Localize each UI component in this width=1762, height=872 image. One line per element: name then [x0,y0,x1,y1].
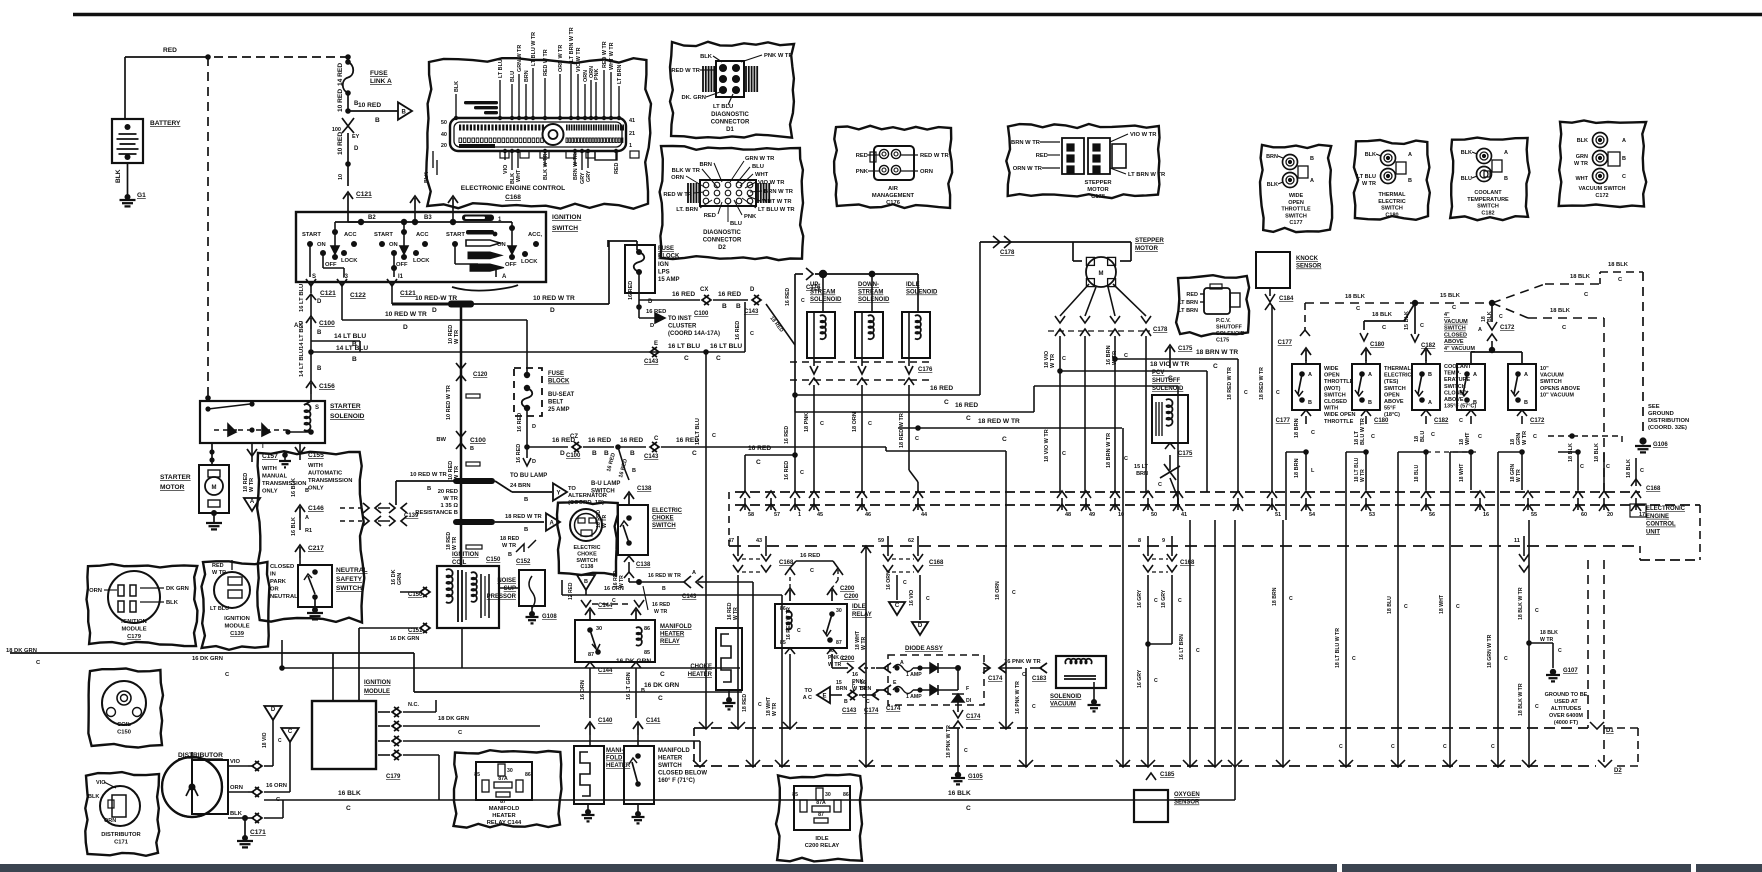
svg-text:SWITCH: SWITCH [552,225,578,232]
svg-text:D: D [432,307,437,314]
wire 16 LT BLU right portion [706,351,745,353]
connector F C143 [848,690,855,700]
svg-text:M: M [212,485,217,491]
svg-text:18 BRN: 18 BRN [1294,458,1300,478]
svg-text:B: B [427,486,431,492]
svg-text:16 GRY: 16 GRY [1137,669,1143,688]
coolant temperature switch [1421,348,1431,355]
idle relay box [775,604,847,648]
svg-text:BLK: BLK [454,81,460,92]
svg-text:C: C [1154,678,1158,684]
svg-text:ELECTRIC: ELECTRIC [1378,199,1406,205]
svg-text:C: C [654,436,659,442]
solenoid vacuum [1056,656,1106,688]
svg-text:C172: C172 [1595,193,1608,199]
svg-text:C: C [1499,314,1503,320]
svg-text:C174: C174 [988,676,1003,682]
svg-text:16 BLK: 16 BLK [291,478,297,497]
svg-text:PARK: PARK [270,579,287,585]
wire 16 GRY vertical pair [1147,575,1149,766]
svg-text:C141: C141 [646,718,661,724]
svg-text:16 RED: 16 RED [628,281,634,300]
svg-text:BRN W TR: BRN W TR [573,153,579,180]
18 BLK dashed bus top [1305,302,1415,304]
idle C200 relay blob [776,774,862,861]
svg-text:ACC: ACC [416,232,429,238]
svg-text:SEE: SEE [1648,404,1660,410]
svg-text:B: B [584,579,588,585]
svg-text:18 WHT: 18 WHT [1439,594,1445,614]
svg-text:46: 46 [865,512,871,518]
svg-text:C: C [1012,590,1016,596]
svg-text:18 ORN: 18 ORN [852,412,858,432]
wire 16 RED diagonal to BU lamp switch [618,447,625,470]
svg-text:RELAY: RELAY [660,639,680,645]
svg-text:C138: C138 [637,486,652,492]
svg-text:W TR: W TR [443,496,459,502]
svg-text:16 BLK: 16 BLK [338,790,361,797]
svg-text:C: C [1491,744,1495,750]
svg-text:W TR: W TR [1360,469,1366,482]
svg-text:C175: C175 [1216,338,1229,344]
svg-text:THERMAL: THERMAL [1384,366,1412,372]
svg-text:GRN W TR: GRN W TR [517,45,523,72]
svg-text:18 RED W TR: 18 RED W TR [1259,367,1265,400]
svg-text:C: C [660,671,665,678]
svg-text:PCV: PCV [1152,370,1164,376]
svg-text:SOLENOID: SOLENOID [858,297,890,303]
svg-text:16 LT BLU: 16 LT BLU [299,284,305,312]
svg-text:C139: C139 [404,513,419,519]
svg-text:C179: C179 [127,634,142,640]
svg-text:18 RED: 18 RED [742,694,748,712]
manifold heater relay box [575,620,655,662]
svg-text:12 RED: 12 RED [568,582,574,600]
svg-text:GRN: GRN [1576,154,1588,160]
svg-text:WITH: WITH [262,466,277,472]
18 BRN W TR horizontal [1112,356,1118,362]
svg-text:MODULE: MODULE [224,624,249,630]
ECC small tabs below connector [500,151,509,158]
svg-text:C182: C182 [1434,418,1449,424]
svg-text:C: C [1606,464,1610,470]
wire vertical 1235 [1234,520,1236,766]
idle relay to diode wire [831,666,833,668]
ECC pin rows [459,125,461,131]
vacuum switch C172 blob [1559,121,1647,208]
ECC BLK pin bottom-left [432,151,434,168]
svg-text:18 BLU: 18 BLU [1414,464,1420,482]
connector CX [702,295,709,305]
svg-text:MANIFOLD: MANIFOLD [658,748,690,754]
wire 16 PNK WTR down from diode out [1025,668,1027,766]
svg-text:10 RED: 10 RED [358,102,381,109]
wire 16 RED below fuse [526,408,528,447]
svg-text:VACUUM: VACUUM [1050,702,1076,708]
svg-text:THROTTLE: THROTTLE [1324,379,1354,385]
svg-text:OFF: OFF [325,262,337,268]
svg-text:SWITCH: SWITCH [1384,386,1406,392]
svg-text:10 RED W TR: 10 RED W TR [410,472,448,478]
svg-text:16 GRY: 16 GRY [1137,589,1143,608]
svg-text:87A: 87A [498,776,508,782]
squiggle below A [452,285,518,291]
svg-text:SWITCH: SWITCH [591,489,615,495]
svg-text:18 BLK: 18 BLK [1372,312,1393,318]
C triangle [281,728,298,742]
D triangle [264,706,281,720]
wire 16 ORN distributor to module [248,765,252,767]
svg-text:D2: D2 [1614,768,1622,774]
svg-text:F: F [852,682,855,688]
svg-text:IGNITION: IGNITION [224,616,250,622]
svg-text:LINK A: LINK A [370,78,392,85]
svg-text:24 BRN: 24 BRN [510,483,531,489]
svg-text:ABOVE: ABOVE [1444,339,1464,345]
svg-text:C146: C146 [308,505,324,512]
svg-text:IDLE: IDLE [852,604,866,610]
svg-text:ORN: ORN [230,785,243,791]
diode assembly dashed box [888,655,984,705]
svg-text:C: C [1289,596,1293,602]
svg-text:C: C [1404,604,1408,610]
svg-text:TO: TO [804,688,812,694]
svg-text:16 RED: 16 RED [718,291,741,298]
svg-text:C: C [820,421,824,427]
svg-text:BLK W TR: BLK W TR [672,168,701,174]
svg-text:MOTOR: MOTOR [160,484,185,491]
svg-text:18 RED W TR: 18 RED W TR [899,413,905,448]
svg-text:THROTTLE: THROTTLE [1324,419,1354,425]
svg-text:CLOSED: CLOSED [270,564,294,570]
svg-text:IN: IN [270,572,276,578]
ignition switch pill 1 [462,215,494,222]
svg-text:18 BLK: 18 BLK [1608,262,1629,268]
svg-text:UP-: UP- [810,282,820,288]
svg-text:18 ORN: 18 ORN [995,581,1001,600]
svg-text:C: C [1580,464,1584,470]
svg-text:(WOT): (WOT) [1324,386,1341,392]
svg-text:RED: RED [1186,292,1198,298]
svg-text:GRN W TR: GRN W TR [745,156,775,162]
svg-text:GROUND TO BE: GROUND TO BE [1545,692,1588,698]
svg-text:WHT: WHT [516,169,522,182]
svg-text:C: C [1535,704,1539,710]
svg-text:AUTOMATIC: AUTOMATIC [308,471,343,477]
manifold heater switch connectors C141 [633,722,643,729]
16 RED WTR junction to A C143 [636,579,642,585]
svg-text:A: A [1504,150,1508,156]
svg-text:C171: C171 [114,840,129,846]
svg-text:57: 57 [774,512,780,518]
svg-text:C177: C177 [1289,220,1302,226]
svg-text:16: 16 [828,648,834,654]
solenoid vacuum input connector [1040,663,1047,673]
wire noise suppressor to coil [499,587,519,589]
svg-text:KNOCK: KNOCK [1296,256,1319,262]
svg-text:C168: C168 [505,194,521,201]
svg-text:4": 4" [1444,312,1450,318]
distributor ground [244,818,246,838]
wires from ignition module outputs [403,711,436,713]
svg-text:LOCK: LOCK [521,259,538,265]
svg-text:SUP: SUP [504,586,516,592]
svg-text:C140: C140 [598,718,613,724]
svg-text:(4000 FT): (4000 FT) [1554,720,1578,726]
diode vertical zener [952,694,964,702]
svg-text:47: 47 [728,538,734,544]
svg-text:CZ: CZ [570,434,578,440]
svg-text:16: 16 [1483,512,1489,518]
svg-text:16 LT BLU: 16 LT BLU [668,343,700,350]
wire 18 GRY vertical [1171,575,1173,644]
svg-text:IGN: IGN [658,262,669,268]
svg-text:C: C [1640,468,1644,474]
wire from fuse block down [607,240,609,247]
svg-text:16 LT BRN: 16 LT BRN [1179,634,1185,660]
svg-text:C138: C138 [581,564,594,570]
down-stream solenoid [855,312,883,358]
svg-text:ONLY: ONLY [262,489,278,495]
svg-text:LT BLU W TR: LT BLU W TR [531,32,537,66]
svg-text:SHUTOFF: SHUTOFF [1216,325,1243,331]
svg-text:BLOCK: BLOCK [658,254,680,260]
svg-text:EY: EY [352,134,360,140]
ignition switch right group [511,222,513,250]
ignition module C179 connector blob [87,564,198,646]
svg-text:BATTERY: BATTERY [150,120,181,127]
svg-text:SOLENOID: SOLENOID [810,297,842,303]
svg-text:15 BLK: 15 BLK [1404,311,1410,330]
svg-text:BRN: BRN [836,686,847,692]
svg-text:VACUUM SWITCH: VACUUM SWITCH [1579,186,1626,192]
svg-text:RED W TR: RED W TR [663,192,692,198]
thermal electric switch (TES) [1361,348,1371,355]
svg-text:C: C [750,331,754,337]
svg-text:16 LT BLU: 16 LT BLU [710,343,742,350]
svg-text:16 RED: 16 RED [652,602,670,608]
svg-text:C178: C178 [1000,250,1015,256]
svg-text:B: B [375,117,380,124]
svg-text:C: C [1062,356,1066,362]
svg-text:LOCK: LOCK [413,258,430,264]
svg-text:16 RED: 16 RED [785,288,791,306]
svg-text:A: A [1478,327,1482,333]
svg-text:HEATER: HEATER [660,632,685,638]
16 RED WTR pointer note [643,586,648,610]
svg-text:C: C [1178,598,1182,604]
svg-text:16 RED: 16 RED [748,445,771,452]
svg-text:BLU: BLU [752,164,764,170]
svg-text:CLOSED: CLOSED [1444,332,1467,338]
svg-text:14 LT BLU: 14 LT BLU [299,321,305,349]
svg-text:C180: C180 [1385,212,1398,218]
D2 connector end [1598,760,1612,767]
svg-text:B: B [508,552,512,558]
svg-text:WHT: WHT [1575,176,1588,182]
svg-text:C: C [288,729,293,735]
svg-text:B3: B3 [424,215,432,221]
A pin wire [495,268,497,277]
svg-text:C183: C183 [1032,676,1047,682]
svg-text:B-U LAMP: B-U LAMP [591,481,620,487]
svg-text:WITH: WITH [1324,406,1338,412]
svg-text:C: C [810,568,814,574]
svg-text:LT BLU W TR: LT BLU W TR [758,207,795,213]
small ground near C157 [282,452,288,458]
svg-text:START: START [302,232,321,238]
connector C178 chevrons [993,236,1000,248]
svg-text:LT BRN W TR: LT BRN W TR [1128,172,1166,178]
svg-text:N.C.: N.C. [408,702,419,708]
svg-text:C: C [842,656,846,662]
wire solenoid to starter motor [211,443,213,465]
16 RED stub row [745,454,795,456]
svg-text:ALTITUDES: ALTITUDES [1551,706,1582,712]
svg-text:(COORD. 32E): (COORD. 32E) [1648,425,1687,431]
connector D on red row [752,295,759,305]
connector CZ [572,442,579,452]
oxygen sensor [1134,790,1168,822]
svg-text:RED: RED [1036,153,1048,159]
svg-text:PRESSOR: PRESSOR [487,594,517,600]
svg-text:WIDE OPEN: WIDE OPEN [1324,412,1356,418]
svg-text:SENSOR: SENSOR [1296,264,1322,270]
second dashed bus row [729,545,1640,547]
svg-text:C121: C121 [356,191,372,198]
svg-text:1 AMP: 1 AMP [906,694,922,700]
svg-text:D: D [317,299,322,305]
wire vertical 1215 [1214,520,1216,766]
stepper motor legs [1060,284,1089,316]
wire 10 RED W TR resistance cluster [453,478,495,484]
svg-text:SWITCH: SWITCH [336,585,362,592]
svg-text:58: 58 [748,512,754,518]
svg-text:C: C [944,399,949,406]
svg-text:BLU: BLU [1420,431,1426,442]
svg-text:C176: C176 [886,200,901,206]
svg-text:C: C [1158,482,1162,488]
PCV below connector C175 [1165,443,1175,449]
wire 18 RED vertical [752,582,754,766]
svg-text:C: C [1456,604,1460,610]
svg-text:BLK: BLK [1267,182,1278,188]
svg-text:BELT: BELT [548,400,564,406]
svg-text:SOLENOID: SOLENOID [1216,331,1245,337]
svg-text:16 VIO: 16 VIO [909,590,915,606]
connector C120 inline [456,363,466,369]
svg-text:W TR: W TR [1574,161,1588,167]
wire BLK battery to ground [127,163,129,197]
svg-text:18 RED W TR: 18 RED W TR [1227,367,1233,400]
svg-text:IGNITION: IGNITION [364,680,391,686]
svg-text:B: B [844,699,848,705]
dashed row below solenoids C176 [790,361,930,363]
lower dashed bus y766 [694,765,1596,767]
diode assy left connectors [884,663,891,673]
svg-text:16 RED: 16 RED [517,413,523,432]
svg-text:SWITCH: SWITCH [1444,384,1466,390]
svg-text:C151: C151 [408,628,423,634]
wire to triangle B [348,110,398,112]
ignition switch box [296,212,546,282]
svg-text:(TES): (TES) [1384,379,1399,385]
idle relay connectors bottom [785,648,795,654]
svg-text:18 DK GRN: 18 DK GRN [438,716,469,722]
coolant temperature switch C182 blob [1450,138,1529,221]
svg-text:15 AMP: 15 AMP [658,277,679,283]
svg-text:MANIFOLD: MANIFOLD [660,624,692,630]
svg-text:D: D [650,323,654,329]
svg-text:B: B [305,488,309,494]
svg-text:BRN W TR: BRN W TR [1011,140,1041,146]
noise suppressor [519,570,545,606]
svg-text:B: B [317,366,322,372]
18 RED W TR wire to triangle A [453,519,495,525]
diagnostic connector D2 blob [660,146,804,260]
svg-text:SOLENOID: SOLENOID [1050,694,1082,700]
18 DK GRN far left wire [10,652,414,654]
svg-text:59: 59 [878,538,884,544]
svg-text:16 LT BLU: 16 LT BLU [695,418,701,445]
svg-text:B: B [1310,156,1314,162]
18 BLK slant up right [1492,284,1545,303]
electronic engine control blob C168 [426,58,651,209]
svg-text:BRN: BRN [699,162,712,168]
svg-text:STEPPER: STEPPER [1084,180,1112,186]
svg-text:C: C [346,805,351,812]
connector C146 [295,505,305,512]
svg-text:50: 50 [1151,512,1157,518]
svg-text:M: M [1099,271,1104,277]
svg-text:CLOSED: CLOSED [1324,399,1347,405]
svg-text:BLK: BLK [1461,150,1472,156]
manifold heater relay C144 blob [454,750,562,827]
svg-text:B: B [662,586,666,592]
svg-text:A C: A C [803,695,812,701]
svg-text:C143: C143 [744,309,759,315]
connector C217 [295,545,305,552]
dashed link between switches [1426,451,1480,453]
ignition module box [312,701,376,769]
svg-text:C184: C184 [1279,296,1294,302]
idle relay connectors top [785,588,795,595]
svg-text:OPENS ABOVE: OPENS ABOVE [1540,386,1580,392]
svg-text:TEMPERATURE: TEMPERATURE [1467,197,1509,203]
wire 18 WHT WTR idle right [859,760,873,767]
fusible link symbol [342,118,354,126]
svg-text:ENGINE: ENGINE [1646,514,1669,520]
svg-text:HEATER: HEATER [658,756,683,762]
svg-text:LT BLU: LT BLU [210,606,229,612]
svg-text:48: 48 [1065,512,1071,518]
svg-text:B: B [402,110,407,116]
svg-text:55: 55 [1531,512,1537,518]
svg-text:C: C [1558,648,1562,654]
svg-text:18 GRY: 18 GRY [1161,589,1167,608]
PCV shutoff solenoid blob [1176,275,1249,336]
svg-text:B: B [524,527,528,533]
svg-text:HEATER: HEATER [606,763,631,769]
svg-text:DISTRIBUTOR: DISTRIBUTOR [101,832,141,838]
svg-text:WIDE: WIDE [1324,366,1339,372]
svg-text:LT. BRN: LT. BRN [676,207,698,213]
svg-text:C155: C155 [308,452,324,459]
svg-text:DIODE ASSY: DIODE ASSY [905,645,944,652]
wire 16 LT BLU lower to bus [705,565,707,728]
ECC top pin wires and labels [455,94,457,118]
svg-text:TO: TO [568,486,576,492]
